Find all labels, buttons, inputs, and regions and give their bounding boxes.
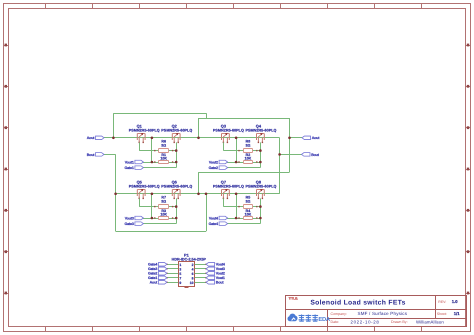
pin 3 of P1	[166, 268, 178, 269]
label Q1	[137, 124, 143, 129]
value label R3 10K	[160, 212, 167, 216]
svg-text:HDR-IDC-2.54-2X5P: HDR-IDC-2.54-2X5P	[172, 257, 207, 261]
net flag Aout at P1	[150, 281, 167, 285]
sheet value	[454, 311, 460, 316]
label R2	[246, 153, 251, 157]
wire gate drop Q5	[139, 198, 155, 206]
svg-text:Gate2: Gate2	[148, 272, 157, 276]
net flag Gate3	[124, 222, 143, 226]
wire from left Bout flag	[104, 154, 116, 156]
wire bottom rail	[116, 193, 280, 195]
svg-text:2: 2	[192, 263, 194, 267]
wire gate flag row Gate1	[142, 167, 176, 169]
label Q7 part number	[213, 184, 244, 188]
label Q2	[172, 124, 178, 129]
junction gate row Q6	[175, 205, 178, 208]
label Q1 part number	[129, 128, 160, 132]
net flag Gate1 at P1	[148, 276, 167, 280]
logo JLC EDA	[288, 314, 331, 324]
wire gate row right Q6	[173, 206, 177, 208]
label R5	[246, 196, 251, 200]
net flag Vout3	[125, 216, 144, 220]
svg-text:REV:: REV:	[438, 300, 446, 304]
svg-text:Bout: Bout	[87, 153, 96, 157]
label R8	[246, 140, 251, 144]
wire to right Aout flag	[290, 137, 303, 139]
svg-text:6: 6	[192, 272, 194, 276]
svg-text:Bout: Bout	[216, 281, 225, 285]
pin 10 of P1	[195, 282, 207, 283]
drawn by value	[416, 319, 444, 324]
svg-text:PSMN2R5-60PLQ: PSMN2R5-60PLQ	[213, 128, 244, 132]
resistor R2	[238, 161, 257, 164]
junction source row mid Vout2	[235, 161, 238, 164]
svg-text:Aout: Aout	[312, 136, 321, 140]
pin number 2	[192, 263, 194, 267]
wire gate row right Q2	[173, 150, 177, 152]
junction Q5 mid rail	[151, 193, 154, 196]
pin 5 of P1	[166, 273, 178, 274]
label R7	[161, 196, 166, 200]
net flag Vout1 at P1	[206, 276, 225, 280]
svg-text:Aout: Aout	[150, 281, 159, 285]
wire gate row right Q8	[257, 206, 261, 208]
pin number 6	[192, 272, 194, 276]
svg-text:3Ω: 3Ω	[245, 143, 250, 147]
junction source row Q8	[259, 217, 262, 220]
net flag Gate4 at P1	[148, 263, 167, 267]
label Q7	[221, 180, 226, 185]
svg-text:WilliamAllison: WilliamAllison	[416, 319, 444, 324]
title block grid	[285, 295, 466, 326]
svg-text:10K: 10K	[245, 156, 252, 160]
value label R1 10K	[160, 156, 167, 160]
svg-text:Date:: Date:	[331, 320, 340, 324]
label Drawn By	[391, 320, 408, 324]
transistor Q2	[172, 133, 180, 143]
rev value	[452, 299, 458, 304]
label Q6	[172, 180, 178, 185]
wire mid vertical Q1/Q2	[151, 138, 153, 162]
wire bottom loop vertical	[206, 194, 208, 231]
net flag Gate4	[209, 222, 228, 226]
node Bout left flag	[87, 153, 104, 157]
transistor Q4	[257, 133, 265, 143]
label Q4	[256, 124, 262, 129]
junction gate row Q2	[175, 149, 178, 152]
wire gate flag row Gate3	[142, 223, 176, 225]
net flag Gate2	[209, 166, 228, 170]
company value	[358, 311, 408, 316]
svg-text:Vout4: Vout4	[209, 216, 218, 220]
svg-text:8: 8	[192, 276, 194, 280]
junction source row mid Vout1	[151, 161, 154, 164]
svg-text:3: 3	[179, 267, 181, 271]
label Q6 part number	[161, 184, 192, 188]
label Sheet	[437, 312, 447, 316]
net flag Gate3 at P1	[148, 267, 167, 271]
junction source row Q2	[175, 161, 178, 164]
svg-text:10K: 10K	[245, 212, 252, 216]
wire top bypass upper	[113, 113, 206, 115]
transistor Q5	[137, 189, 145, 199]
pin number 5	[179, 272, 181, 276]
svg-text:10K: 10K	[160, 212, 167, 216]
wire top rail	[104, 137, 280, 139]
svg-text:4: 4	[192, 267, 194, 271]
junction gate row Q4	[259, 149, 262, 152]
svg-text:1/1: 1/1	[454, 311, 460, 316]
wire under Q2	[176, 142, 178, 167]
svg-text:1: 1	[179, 263, 181, 267]
net flag Vout1	[125, 160, 144, 164]
transistor Q7	[222, 189, 230, 199]
junction node Bout left bottom rail	[114, 193, 117, 196]
label R3	[161, 209, 166, 213]
svg-text:Vout3: Vout3	[216, 267, 225, 271]
resistor R7	[154, 205, 173, 209]
wire mid vertical Q3/Q4	[236, 138, 238, 162]
wire bottom loop horizontal	[116, 231, 206, 233]
svg-text:PSMN2R5-60PLQ: PSMN2R5-60PLQ	[129, 128, 160, 132]
wire gate drop Q3	[223, 142, 239, 150]
wire top bypass lower	[199, 118, 290, 120]
svg-text:SMF / Surface Physics: SMF / Surface Physics	[358, 311, 408, 316]
svg-text:TITLE:: TITLE:	[289, 296, 299, 300]
junction node Aout right	[288, 137, 291, 140]
wire left vertical Bout	[115, 154, 117, 231]
wire right vertical Bout	[279, 138, 281, 194]
pin number 4	[192, 267, 194, 271]
wire source row Vout1	[142, 162, 176, 164]
pin number 10	[190, 281, 194, 285]
svg-text:3Ω: 3Ω	[161, 143, 166, 147]
pin 6 of P1	[195, 273, 207, 274]
svg-text:Bout: Bout	[311, 153, 320, 157]
wire riser to top rail left of Q3	[198, 118, 200, 138]
junction Q1 mid rail	[151, 137, 154, 140]
label R1	[161, 153, 166, 157]
label Q8 part number	[246, 184, 277, 188]
junction top rail riser	[197, 137, 200, 140]
resistor R1	[154, 161, 173, 164]
pin 2 of P1	[195, 264, 207, 265]
node Bout right flag	[302, 153, 320, 157]
label Date	[331, 320, 340, 324]
value label R5 3Ω	[245, 199, 250, 203]
wire right vertical Aout	[289, 118, 291, 172]
wire gate flag row Gate4	[227, 223, 261, 225]
wire mid vertical Q5/Q6	[151, 194, 153, 218]
junction node Bout right	[278, 153, 281, 156]
label P1 part number	[172, 257, 207, 261]
svg-text:Vout3: Vout3	[125, 216, 134, 220]
transistor Q1	[137, 133, 145, 143]
svg-text:Gate4: Gate4	[209, 222, 218, 226]
svg-text:9: 9	[179, 281, 181, 285]
svg-text:Gate3: Gate3	[124, 222, 133, 226]
label P1	[184, 252, 190, 257]
svg-text:Aout: Aout	[87, 136, 96, 140]
net flag Gate1	[124, 166, 143, 170]
wire source row Vout3	[142, 218, 176, 220]
net flag Vout4 at P1	[206, 263, 225, 267]
junction Q3 mid rail	[235, 137, 238, 140]
wire under Q8	[260, 198, 262, 223]
label Q2 part number	[161, 128, 192, 132]
svg-text:Gate1: Gate1	[148, 276, 157, 280]
transistor Q6	[172, 189, 180, 199]
pin number 8	[192, 276, 194, 280]
wire under Q4	[260, 142, 262, 167]
svg-text:5: 5	[179, 272, 181, 276]
transistor Q3	[222, 133, 230, 143]
pin 8 of P1	[195, 277, 207, 278]
wire mid horizontal loop	[199, 172, 290, 174]
svg-text:Vout4: Vout4	[216, 263, 225, 267]
label TITLE	[289, 296, 299, 300]
junction bottom rail riser	[197, 193, 200, 196]
net flag Bout at P1	[206, 281, 224, 285]
svg-text:3Ω: 3Ω	[161, 199, 166, 203]
value label R8 3Ω	[245, 143, 250, 147]
svg-text:Company:: Company:	[331, 312, 347, 316]
svg-text:Gate4: Gate4	[148, 263, 157, 267]
resistor R4	[238, 217, 257, 220]
label Q4 part number	[246, 128, 277, 132]
junction bottom loop	[205, 193, 208, 196]
date value	[351, 319, 380, 324]
title text	[310, 300, 405, 307]
wire source row Vout2	[227, 162, 261, 164]
pin 9 of P1	[166, 282, 178, 283]
svg-text:Vout1: Vout1	[216, 276, 225, 280]
net flag Gate2 at P1	[148, 272, 167, 276]
svg-text:PSMN2R5-60PLQ: PSMN2R5-60PLQ	[213, 184, 244, 188]
net flag Vout4	[209, 216, 228, 220]
resistor R8	[238, 149, 257, 153]
wire gate drop Q7	[223, 198, 239, 206]
svg-text:3Ω: 3Ω	[245, 199, 250, 203]
svg-text:Vout2: Vout2	[209, 160, 218, 164]
value label R7 3Ω	[161, 199, 166, 203]
resistor R5	[238, 205, 257, 209]
transistor Q8	[257, 189, 265, 199]
svg-text:10: 10	[190, 281, 194, 285]
wire gate row right Q4	[257, 150, 261, 152]
node Aout right flag	[302, 136, 320, 140]
junction Q7 mid rail	[235, 193, 238, 196]
connector P1 body	[179, 262, 195, 288]
svg-text:10K: 10K	[160, 156, 167, 160]
wire under Q6	[176, 198, 178, 223]
svg-text:PSMN2R5-60PLQ: PSMN2R5-60PLQ	[161, 128, 192, 132]
label Q5	[137, 180, 143, 185]
label R6	[161, 140, 166, 144]
svg-text:Vout1: Vout1	[125, 160, 134, 164]
wire riser from Aout rail	[113, 113, 115, 138]
svg-text:7: 7	[179, 276, 181, 280]
svg-text:Gate2: Gate2	[209, 166, 218, 170]
junction source row Q6	[175, 217, 178, 220]
label Q3 part number	[213, 128, 244, 132]
wire to right Bout flag	[280, 154, 302, 156]
value label R4 10K	[245, 212, 252, 216]
wire source row Vout4	[227, 218, 261, 220]
wire riser to bottom rail	[198, 172, 200, 194]
pin number 7	[179, 276, 181, 280]
node Aout left flag	[87, 136, 104, 140]
svg-text:1.0: 1.0	[452, 299, 458, 304]
junction source row mid Vout3	[151, 217, 154, 220]
pin number 9	[179, 281, 181, 285]
svg-text:Gate1: Gate1	[124, 166, 133, 170]
resistor R3	[154, 217, 173, 220]
resistor R6	[154, 149, 173, 153]
label Q3	[221, 124, 227, 129]
net flag Vout2	[209, 160, 228, 164]
wire mid vertical Q7/Q8	[236, 194, 238, 218]
net flag Vout3 at P1	[206, 267, 225, 271]
label Q5 part number	[129, 184, 160, 188]
label Company	[331, 312, 347, 316]
svg-text:Sheet:: Sheet:	[437, 312, 447, 316]
wire gate drop Q1	[139, 142, 155, 150]
svg-text:Vout2: Vout2	[216, 272, 225, 276]
net flag Vout2 at P1	[206, 272, 225, 276]
junction node Aout left	[112, 137, 115, 140]
junction source row Q4	[259, 161, 262, 164]
svg-text:PSMN2R5-60PLQ: PSMN2R5-60PLQ	[161, 184, 192, 188]
value label R2 10K	[245, 156, 252, 160]
svg-text:2022-10-28: 2022-10-28	[351, 319, 380, 324]
wire top bypass step	[206, 113, 208, 118]
svg-text:PSMN2R5-60PLQ: PSMN2R5-60PLQ	[246, 184, 277, 188]
svg-text:Gate3: Gate3	[148, 267, 157, 271]
label REV	[438, 300, 446, 304]
pin 7 of P1	[166, 277, 178, 278]
junction gate row Q8	[259, 205, 262, 208]
pin number 1	[179, 263, 181, 267]
label Q8	[256, 180, 262, 185]
svg-text:Solenoid Load switch FETs: Solenoid Load switch FETs	[310, 300, 405, 307]
svg-text:PSMN2R5-60PLQ: PSMN2R5-60PLQ	[246, 128, 277, 132]
pin 4 of P1	[195, 268, 207, 269]
junction source row mid Vout4	[235, 217, 238, 220]
svg-text:PSMN2R5-60PLQ: PSMN2R5-60PLQ	[129, 184, 160, 188]
pin number 3	[179, 267, 181, 271]
wire gate flag row Gate2	[227, 167, 261, 169]
label R4	[246, 209, 251, 213]
pin 1 of P1	[166, 264, 178, 265]
svg-text:Drawn By:: Drawn By:	[391, 320, 408, 324]
value label R6 3Ω	[161, 143, 166, 147]
svg-text:EDA: EDA	[318, 317, 330, 323]
